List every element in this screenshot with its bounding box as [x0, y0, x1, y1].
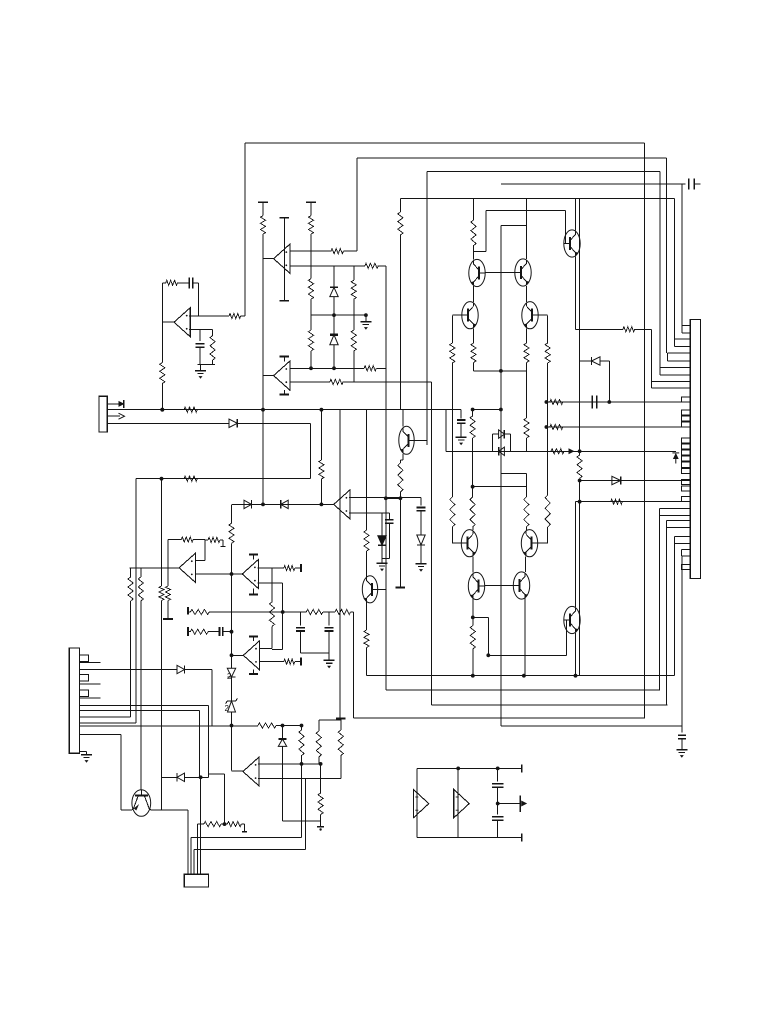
wire input bus [354, 717, 645, 719]
resistor R10c [308, 330, 313, 351]
resistor R12 [545, 343, 550, 363]
wire R40 chain [271, 568, 273, 602]
wire output rail [500, 225, 502, 726]
rail tap T5 [336, 718, 346, 720]
blk bottom bar [521, 833, 523, 841]
wire Q6 emitter [402, 454, 404, 460]
wire zobel line2 [323, 611, 335, 613]
wire Q1 emitter line [576, 328, 623, 330]
wire pinJ drop [120, 735, 122, 810]
wire mid bias line [311, 314, 366, 316]
wire to conn 849 [194, 848, 305, 850]
wire diode loop top [580, 360, 592, 362]
op-amp U2 [274, 244, 290, 273]
wire Q8-Q10 [525, 557, 527, 573]
wire J3 stub pair D join [659, 368, 661, 376]
wire to U8 apex [232, 770, 243, 772]
resistor R17 [545, 495, 550, 527]
wire U7 inv [259, 661, 284, 663]
wire J3 stub pair G2 [667, 527, 691, 529]
pin J3-1 [682, 397, 691, 402]
wire J3 stub pair H1 [675, 535, 691, 537]
ground GND3 [360, 321, 371, 323]
wire J2 pinD [80, 697, 101, 699]
wire R35 lead [193, 539, 205, 541]
wire chain3 [310, 315, 312, 330]
diode D10 (zener) [378, 536, 386, 545]
wire net V3 top [427, 171, 660, 173]
wire Q6 collector [402, 410, 404, 427]
capacitor C7 [296, 627, 305, 629]
U2 rail bot bar [280, 300, 290, 302]
resistor R9 [365, 263, 378, 268]
junction [486, 653, 490, 657]
resistor R10e [351, 330, 356, 351]
pin J3-11 [682, 479, 691, 484]
wire U5 top in [195, 560, 205, 562]
resistor R39 [284, 566, 295, 571]
wire C6 dn [388, 524, 390, 559]
junction [456, 767, 460, 771]
wire J3 stub pair E2 [652, 387, 691, 389]
resistor R16 [450, 497, 455, 527]
resistor R23 [470, 626, 475, 649]
rail tap T2 [306, 201, 316, 203]
diode D13 [177, 665, 185, 673]
wire zobel line3 [351, 611, 354, 613]
wire T1 down [262, 202, 264, 215]
wire R4 down [212, 360, 214, 364]
diode D16 [499, 447, 505, 455]
wire U6 rail stub t [253, 554, 255, 559]
wire Q1 emitter [575, 257, 577, 330]
pin J3-6 [682, 444, 691, 449]
svg-text:2: 2 [225, 704, 230, 713]
junction [160, 477, 164, 481]
capacitor C10 [591, 396, 593, 409]
wire pin4 drop [310, 423, 312, 478]
junction [160, 408, 164, 412]
wire D1 lead [237, 422, 310, 424]
wire Q8 collector up [525, 473, 527, 497]
wire chain [310, 234, 312, 279]
wire J2 pinE [80, 705, 209, 707]
wire Q1 base lead [565, 243, 567, 245]
resistor R6 [184, 407, 197, 412]
resistor R48 [299, 730, 304, 756]
wire res line 2 [548, 426, 691, 428]
wire J3 stub pair G join [666, 521, 668, 528]
wire rc top [200, 329, 213, 331]
wire bias row2 [276, 725, 301, 727]
resistor R45 [335, 609, 351, 614]
wire J3 stub pair H join [674, 536, 676, 543]
wire C6 stem [388, 513, 390, 520]
ground GND6 [324, 659, 335, 661]
pin J3-12 [682, 486, 691, 491]
op-amp U10 [454, 789, 470, 818]
wire Q6 jog [400, 459, 403, 461]
junction [522, 674, 526, 678]
pin J3-9 [682, 462, 691, 467]
wire zobel drop [353, 612, 355, 718]
diode D8 [592, 357, 601, 365]
wire J1 pin4 [107, 422, 229, 424]
wire R3 lead [241, 315, 245, 317]
wire C12 stem [497, 804, 499, 815]
wire output node link [474, 370, 527, 372]
op-amp U1 [174, 308, 190, 337]
wire Q7 collector line [473, 486, 527, 488]
junction [578, 500, 582, 504]
wire R30 lead [343, 381, 432, 383]
junction [261, 408, 265, 412]
resistor R24 [577, 455, 582, 478]
wire J3 stub pair G1 [667, 520, 691, 522]
junction [281, 610, 285, 614]
wire bias lead [188, 631, 190, 633]
wire U1 out [162, 321, 174, 323]
wire x162 chain2 [161, 601, 163, 778]
wire net FB1 top [245, 142, 645, 144]
wire T2 down [310, 202, 312, 215]
wire D3 down [333, 345, 335, 369]
wire x366 top [366, 410, 368, 531]
pin J3-10 [682, 468, 691, 473]
ground GND7 [81, 754, 92, 756]
resistor R42 [229, 523, 234, 543]
wire R15 down [526, 363, 528, 371]
capacitor C8 [325, 627, 334, 629]
wire J3 stub pair D2 [660, 374, 690, 376]
wire U9 rail [416, 789, 418, 818]
wire J3 stub pair I1 [682, 549, 691, 551]
wire pinB drop [211, 670, 213, 726]
blk top bar [521, 764, 523, 772]
resistor R43 [190, 609, 209, 614]
wire R32 lead [320, 410, 322, 460]
wire x162 tail [161, 777, 163, 810]
junction [384, 496, 388, 500]
wire U6 inv [258, 582, 283, 584]
wire U2inv rail [385, 266, 387, 690]
wire r row end [241, 823, 244, 825]
diode D1 [229, 419, 237, 427]
wire D17 loop right [510, 434, 512, 451]
U3 rail top bar [280, 356, 290, 358]
wire J3 stub pair B join [674, 339, 676, 347]
wire net Y drop [135, 479, 137, 723]
resistor R29 [364, 366, 376, 371]
wire Q4 base lead [452, 314, 462, 316]
rail tap bar [300, 658, 302, 666]
wire chain2 [310, 299, 312, 315]
wire U5 inv to U6 out [195, 573, 242, 575]
out bar [519, 795, 521, 812]
wire T5 link [319, 719, 341, 721]
wire limiter drop [526, 371, 528, 418]
resistor R7 [260, 216, 265, 235]
wire J2 pinF [80, 710, 200, 712]
wire x366 mid [366, 551, 368, 577]
wire Q3 collector [526, 199, 528, 260]
junction [471, 408, 475, 412]
wire R31 lead [399, 460, 401, 463]
wire Q8 base lead [538, 542, 548, 544]
wire Q9-Q11 link v [487, 617, 489, 655]
rail tick [317, 826, 324, 828]
wire U6 noninv [258, 567, 284, 569]
wire J2 pinG [80, 716, 131, 718]
wire zobel lead [188, 611, 190, 613]
wire phi mid [420, 511, 422, 535]
wire J3 stub pair D1 [660, 367, 690, 369]
wire z chain dn [282, 746, 284, 821]
capacitor C6 [385, 519, 393, 521]
junction [471, 485, 475, 489]
junction [499, 408, 503, 412]
transistor Q12 [132, 790, 151, 817]
junction [309, 366, 313, 370]
wire net V5 drop [674, 199, 676, 340]
wire Q4 base chain [451, 316, 453, 344]
wire blk top [417, 767, 522, 769]
resistor R51 [338, 730, 343, 756]
resistor R14 [471, 343, 476, 362]
resistor R26 [550, 399, 563, 404]
wire Q10 emitter [524, 598, 526, 676]
wire Q12 right lead [151, 809, 188, 811]
wire U2 out rail [262, 259, 264, 505]
wire gnd stem [86, 752, 88, 755]
resistor R8 [331, 249, 343, 254]
wire R36 leads [205, 539, 208, 541]
wire J3 stub pair F2 [660, 514, 691, 516]
wire line2 drop [304, 779, 306, 850]
resistor R30 [330, 379, 343, 384]
wire J2 pinC [80, 683, 101, 685]
wire J3 stub pair I2 [682, 555, 691, 557]
wire chain x353 [353, 299, 355, 330]
wire J2 pinA [80, 661, 101, 663]
wire U3 out [262, 375, 273, 377]
wire output cap lead [681, 726, 683, 733]
resistor R36 [208, 537, 220, 542]
pin J3-7 [682, 450, 691, 455]
wire r chain3 dn [318, 757, 320, 764]
resistor R44 [306, 609, 323, 614]
wire U4 out line [232, 503, 334, 505]
wire R40 dn [271, 626, 273, 648]
wire J2 pinB [80, 669, 177, 671]
resistor R46 [190, 629, 208, 634]
out arrow [521, 801, 527, 807]
wire r chain2 up [320, 764, 322, 793]
wire Q7 base lead [452, 542, 461, 544]
wire D17 lead b [504, 433, 510, 435]
resistor R13 [471, 220, 476, 246]
wire U5 fb up [167, 540, 169, 568]
wire r chain2 dn [320, 815, 322, 827]
wire U1 noninv [189, 329, 200, 331]
junction [545, 400, 549, 404]
wire net W3 drop [674, 544, 676, 676]
wire q2chain up [472, 410, 474, 417]
capacitor C11 [492, 783, 504, 785]
wire J3 stub pair C1 [668, 352, 691, 354]
wire D13 lead [185, 669, 213, 671]
wire U1 fb up [161, 283, 163, 322]
junction [230, 572, 234, 576]
resistor R35 [181, 537, 193, 542]
wire loop-zobel joint [282, 612, 284, 650]
op-amp U6 [242, 560, 258, 589]
transistor Q3 [515, 259, 531, 286]
wire rail x400 [399, 235, 401, 410]
junction [496, 802, 500, 806]
hook bar [242, 831, 247, 833]
wire U3 noninv [290, 367, 364, 369]
op-amp U9 [413, 789, 429, 818]
wire diode row [162, 776, 178, 778]
wire R55 dn [366, 648, 368, 676]
capacitor C14 [688, 178, 690, 189]
wire net W2 drop [666, 528, 668, 705]
wire Q6 base [414, 439, 427, 441]
diode D15 [177, 773, 185, 781]
wire Q8 collector line [501, 472, 526, 474]
rail tap bar [187, 627, 189, 636]
wire Cb dn [328, 632, 330, 653]
pin1 bar [123, 400, 125, 408]
ground GND5 [377, 562, 388, 564]
wire chain4 [310, 351, 312, 368]
wire Q4 emitter [473, 328, 475, 343]
junction [332, 366, 336, 370]
wire rail x400 top [399, 199, 401, 213]
wire conn w4 [196, 824, 198, 874]
junction [230, 630, 234, 634]
resistor R38 [138, 577, 143, 601]
wire J3 stub pair E1 [652, 380, 691, 382]
resistor R5 [160, 363, 165, 384]
capacitor C9 [219, 627, 221, 636]
wire to conn 837 [191, 837, 302, 839]
U7 rail bar t [249, 636, 258, 638]
resistor R10b [308, 279, 313, 300]
wire Q2-Q3 bases [485, 272, 515, 274]
wire U7 out [232, 654, 244, 656]
wire blk bottom [417, 836, 522, 838]
wire bottom bus 2 [386, 689, 660, 691]
wire sense line [446, 450, 676, 452]
wire J3 stub pair F join [659, 508, 661, 515]
wire loop v [282, 583, 284, 649]
wire C3 down [199, 348, 201, 365]
op-amp U5 [179, 553, 195, 582]
wire pinE drop [207, 706, 209, 778]
wire C12 dn [497, 821, 499, 838]
wire sense drop [445, 410, 447, 452]
wire R51 dn [340, 756, 342, 779]
resistor R40 [269, 602, 274, 626]
junction [230, 653, 234, 657]
wire U8 inv line [258, 778, 341, 780]
wire Q4 chain down [451, 363, 453, 497]
wire J3 stub pair A join [681, 325, 683, 333]
resistor R49 [318, 793, 323, 815]
junction [300, 762, 304, 766]
junction [499, 369, 503, 373]
svg-text:2: 2 [227, 672, 232, 681]
junction [261, 503, 265, 507]
wire R41 lead [295, 661, 301, 663]
resistor R56 [524, 418, 529, 438]
wire bias string3 [231, 677, 233, 701]
pin J3-5 [682, 438, 691, 443]
wire J2 pinJ [80, 734, 121, 736]
capacitor C15 [678, 734, 686, 736]
wire Q5 chain down [547, 363, 549, 495]
wire link q2chain [473, 409, 501, 411]
wire D8 lead [600, 360, 609, 362]
capacitor C12 [492, 816, 504, 818]
wire R56 down [526, 438, 528, 451]
wire stub [386, 497, 401, 499]
wire U2 out [263, 258, 274, 260]
op-amp U4 [334, 490, 350, 519]
wire Q11 base lead [564, 619, 567, 621]
wire J2 pinI / bias row [80, 725, 258, 727]
wire R4 leads [212, 330, 214, 336]
wire J3 stub pair A1 [682, 324, 690, 326]
wire phi dn [420, 545, 422, 564]
resistor R10a [308, 216, 313, 235]
wire conn w1 [187, 810, 189, 874]
transistor Q6 [399, 426, 414, 454]
diode D4 [417, 535, 425, 545]
wire FB1 left drop [244, 143, 246, 316]
wire riser link [208, 773, 224, 775]
wire net Y line [136, 478, 311, 480]
U6 rail bar b [249, 594, 258, 596]
wire Q1 collector [575, 199, 577, 231]
junction [399, 496, 403, 500]
wire U2 noninv [290, 250, 331, 252]
wire net V2 top [357, 157, 666, 159]
wire J3 stub pair C join [667, 353, 669, 361]
wire V2 left drop [356, 158, 358, 251]
wire cap line [548, 401, 691, 403]
transistor Q9 [468, 572, 484, 599]
wire r chain dn [301, 756, 303, 838]
wire Q9-Q10 bases [485, 585, 514, 587]
wire C6 link [382, 557, 389, 559]
resistor R32 [319, 460, 324, 479]
pin J3-13 [682, 496, 691, 501]
pin arrow marker [673, 453, 679, 459]
wire vas link [501, 224, 527, 226]
junction [471, 674, 475, 678]
wire R2-C2 [178, 282, 189, 284]
wire Q9 emitter jog [473, 616, 489, 618]
wire U10 rail [457, 768, 459, 837]
wire U4 rail [339, 410, 341, 719]
pin J3-4 [682, 422, 691, 427]
connector J4 [184, 874, 208, 887]
wire R13 to Q2 [473, 246, 475, 260]
wire net V5 top [400, 198, 674, 200]
